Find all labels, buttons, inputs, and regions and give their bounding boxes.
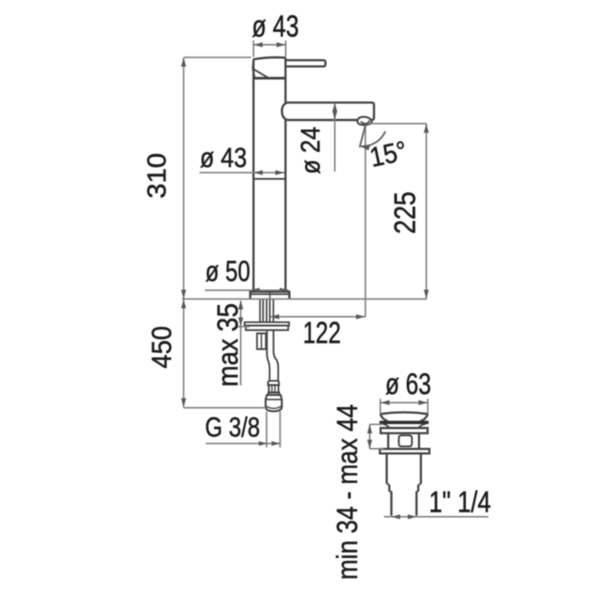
arrows G3/8: [259, 441, 280, 446]
spout: [282, 103, 374, 120]
mounting plane line: [182, 298, 427, 300]
svg-text:450: 450: [146, 326, 177, 369]
hose fitting collar: [268, 381, 279, 385]
svg-text:G 3/8: G 3/8: [205, 412, 260, 443]
dim ø43 top: extension lines: [254, 41, 286, 58]
svg-text:ø 24: ø 24: [296, 127, 326, 175]
svg-text:225: 225: [389, 191, 422, 234]
dim min34-max44 line: [369, 425, 371, 449]
arrows max35: [238, 300, 243, 326]
outlet aerator tip: [357, 117, 371, 125]
dim ø63 extension lines: [380, 399, 428, 414]
stud nut: [257, 333, 266, 349]
dim max35 line: [240, 301, 242, 386]
outlet extension to 225: [368, 123, 427, 125]
arrows 225: [424, 124, 429, 299]
arrows ø43 middle: [254, 170, 285, 175]
dim ø24 line: [334, 103, 336, 172]
dim 122 line: [270, 316, 365, 318]
svg-text:max 35: max 35: [212, 303, 244, 387]
drain top washer: [381, 428, 428, 433]
svg-text:310: 310: [144, 153, 172, 199]
drain body: cap dome: [380, 412, 428, 421]
dim 310 line: [183, 58, 185, 299]
dim ø63 line: [381, 402, 428, 404]
dim max35 tick: [235, 326, 250, 328]
dim ø43 top: dimension line: [254, 44, 286, 46]
svg-text:min 34 - max 44: min 34 - max 44: [332, 404, 364, 580]
dim ø50 leader: [205, 289, 289, 291]
mounting washer: [245, 322, 289, 330]
arrows 310: [181, 58, 186, 299]
drain lower washer: [380, 449, 430, 454]
drain tail upper: [387, 453, 421, 484]
arrows ø43 top: [254, 42, 286, 47]
arrows ø50: [251, 288, 289, 293]
hose collar 2: [268, 393, 279, 395]
svg-text:ø 43: ø 43: [200, 142, 247, 173]
dim 225 line: [425, 124, 427, 299]
hose ferrule: [269, 385, 279, 392]
dim 450 line: [183, 300, 185, 408]
dim min34-max44 ticks: [370, 424, 384, 448]
mounting shank tubes: [260, 299, 273, 322]
arrows min34-max44: [367, 424, 372, 448]
arrow angle arc tip: [361, 146, 371, 151]
dim ø43 middle leader: [200, 172, 285, 174]
drain tail middle: [389, 485, 418, 492]
arrows ø63: [381, 400, 428, 405]
svg-text:1" 1/4: 1" 1/4: [429, 486, 491, 519]
outlet drop line to 122: [364, 125, 366, 318]
handle lever: [286, 60, 326, 66]
drain body with overflow window: [388, 433, 419, 449]
arrows 450: [181, 299, 186, 407]
faucet column body: [254, 58, 286, 292]
svg-text:122: 122: [303, 315, 341, 350]
hose nut G3/8: [266, 395, 282, 411]
faucet cap bottom: [254, 77, 286, 80]
angle 15 arc: [361, 131, 386, 146]
arrows 1"1/4: [392, 514, 417, 519]
dim 1"1/4 line: [384, 516, 489, 518]
arrows 122: [270, 314, 365, 319]
svg-text:ø 63: ø 63: [385, 368, 431, 401]
dim 310 extension top: [184, 56, 251, 58]
outlet tilted axis line: [360, 123, 366, 147]
drain tail pipe 1"1/4: [391, 491, 416, 515]
svg-text:ø 43: ø 43: [252, 9, 299, 44]
faucet cap top: [253, 57, 285, 59]
dim G3/8 leader line: [206, 443, 280, 445]
arrows ø24: [332, 103, 337, 120]
flexible supply hose: [267, 330, 278, 381]
dim G3/8 extension lines: [267, 412, 281, 448]
drain cap rim band: [380, 421, 429, 424]
drain neck: [383, 424, 426, 428]
faucet cap lever notch: [253, 62, 269, 78]
column joint line: [254, 178, 286, 180]
svg-text:ø 50: ø 50: [205, 256, 250, 288]
base flange ø50: [250, 292, 289, 299]
dim 450 extension bottom: [184, 407, 266, 409]
svg-text:15°: 15°: [367, 135, 410, 173]
